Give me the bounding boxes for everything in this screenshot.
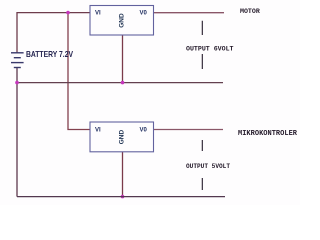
wire vertical feed to U2 <box>68 13 90 130</box>
svg-text:GND: GND <box>119 130 126 145</box>
wire bottom ground rail <box>17 196 225 198</box>
callout dashes OUTPUT 5VOLT <box>201 140 203 190</box>
node junction U1 GND rail <box>121 81 125 85</box>
wire battery negative down <box>16 68 18 197</box>
svg-text:MOTOR: MOTOR <box>240 8 260 15</box>
svg-text:V0: V0 <box>140 11 148 17</box>
node junction battery middle rail <box>15 81 19 85</box>
node junction top <box>66 11 70 15</box>
wire U1 V0 output to MOTOR <box>154 12 225 14</box>
wire U2 V0 output to MIKROKONTROLER <box>154 129 224 131</box>
wire battery positive to regulator U1 VI <box>17 13 90 53</box>
wire U2 GND down to bottom rail <box>122 152 124 197</box>
svg-text:OUTPUT 5VOLT: OUTPUT 5VOLT <box>186 163 230 170</box>
regulator U1 body <box>90 6 154 36</box>
svg-text:VI: VI <box>95 11 101 17</box>
wire U1 GND down to rail <box>122 35 124 83</box>
callout dashes OUTPUT 6VOLT <box>201 21 203 69</box>
battery BT1 plates <box>11 53 24 68</box>
svg-text:OUTPUT 6VOLT: OUTPUT 6VOLT <box>186 45 234 52</box>
svg-text:VI: VI <box>95 127 101 133</box>
node junction U2 GND bottom rail <box>121 195 125 199</box>
svg-text:V0: V0 <box>140 127 148 133</box>
regulator U2 body <box>90 122 154 152</box>
svg-text:BATTERY 7.2V: BATTERY 7.2V <box>26 50 73 59</box>
svg-text:MIKROKONTROLER: MIKROKONTROLER <box>238 130 298 138</box>
wire middle ground rail <box>17 82 223 84</box>
svg-text:GND: GND <box>119 13 126 28</box>
